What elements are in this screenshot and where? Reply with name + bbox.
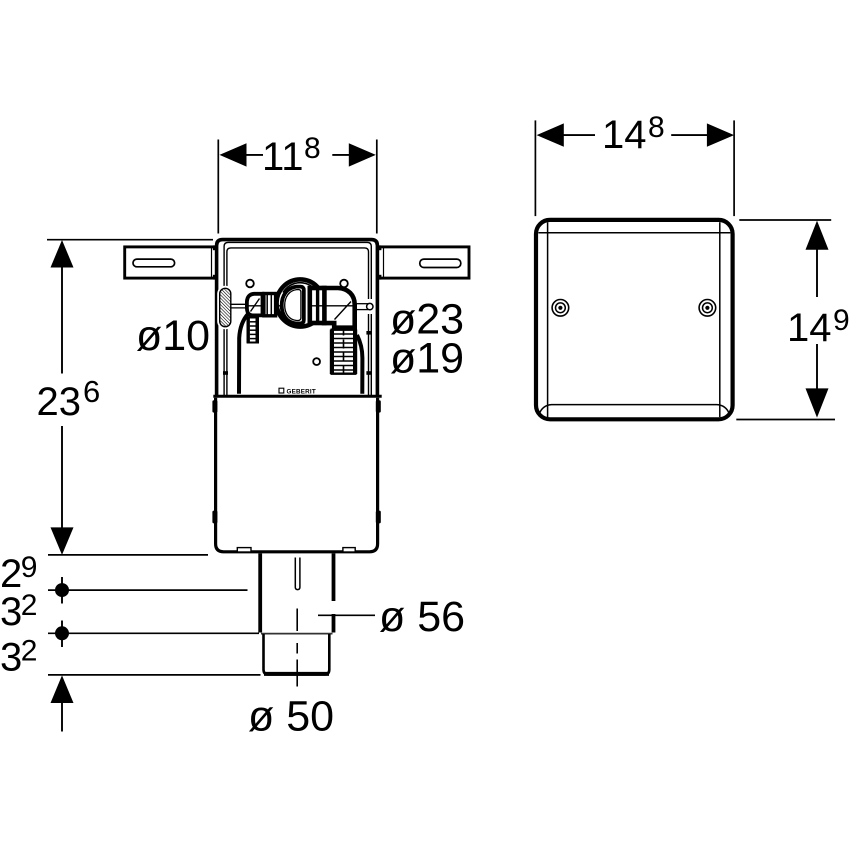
dimension 3_2 text b [0,634,37,679]
dimension 3_2 text a [0,589,37,634]
right channel lines [357,299,375,314]
dimension 2_9 text [0,551,37,596]
pipe top slot [295,558,300,590]
svg-text:ø10: ø10 [136,312,210,360]
lower box bottom notch left [237,548,251,552]
right corrugated hose [332,327,356,378]
right union block [310,288,325,323]
upper box inner wall line 2 [227,248,369,396]
label diameter 50 [248,692,334,740]
cover plate outer [536,220,733,419]
lower box bottom notch right [343,548,355,552]
left channel lines [231,304,249,308]
outlet pipe 56 right wall [332,553,336,632]
right thin hose [357,335,362,394]
box flange line [213,395,381,398]
svg-text:ø 56: ø 56 [379,593,465,641]
bracket slot right [420,259,461,267]
left elbow [247,294,263,316]
outlet pipe 56 left wall [258,553,262,632]
dimension dot 2_9 [55,577,69,604]
trap window [282,287,304,324]
cover plate inner frame [538,222,730,417]
dimension 14_8 arrows [537,123,735,146]
trap inlet center line [247,305,281,307]
wall bracket left [125,247,217,278]
right wall outlet circle [367,303,373,309]
dimension 11_8 arrow left [220,143,247,166]
back wall holes redraw [246,280,348,288]
dimension 11_8 extension line right [376,140,378,234]
dimension dot 3_2 [55,621,69,648]
dimension 14_9 arrows [806,221,829,418]
lower box tabs [212,400,380,523]
extension line level 2_9 [48,589,248,591]
svg-text:GEBERIT: GEBERIT [287,388,316,395]
stub 50 top line [261,633,333,635]
dimension 14_8 text [602,111,665,157]
box corner junction dots [213,245,382,279]
extension line level stub bottom [48,674,261,676]
pipe center line [296,609,298,687]
dimension 23_6 arrow down [51,527,74,555]
box wall tick marks [223,331,371,375]
upper box inner wall line 1 [224,242,371,396]
dimension 14_8 line segments [563,134,708,136]
dimension 23_6 text [37,374,101,424]
trap outlet center line [310,305,353,307]
trap body ring [277,279,324,326]
dimension 14_9 text [787,304,850,350]
upper box outer shell [217,240,378,397]
extension line level 3_2 [48,632,259,634]
back wall hole lower [313,358,320,365]
dimension arrow up bottom [51,675,74,731]
bracket slot left [133,259,175,267]
dimension 14_9 stem [816,249,818,390]
left ribbed seal [220,288,231,326]
left union nut [264,294,276,316]
left corrugated hose [248,317,258,343]
dimension 11_8 line segments [246,154,350,156]
label diameter 10 [136,312,210,360]
label diameter 56 with leader [318,593,465,641]
left seal halo [217,286,233,329]
lower box shell [216,398,378,552]
dimension 11_8 extension line left [217,140,219,234]
label diameter 19 [390,335,464,383]
right elbow [324,288,355,328]
stub 50 body [264,634,330,675]
dimension 23_6 stem [61,266,63,529]
dimension 11_8 text [262,132,321,179]
dimension 14_9 extension lines [736,220,835,420]
dimension 23_6 arrow up [51,240,74,268]
left thin hose [239,314,248,394]
dimension 11_8 arrow right [349,143,376,166]
svg-text:ø 50: ø 50 [248,692,334,740]
geberit logo [279,388,316,395]
wall bracket right [378,247,470,278]
plate screw right [699,300,716,317]
label diameter 23 [390,296,464,344]
svg-text:ø19: ø19 [390,335,464,383]
plate screw left [552,300,569,317]
extension line level box bottom [48,554,208,556]
dimension 14_8 extension lines [535,120,734,216]
dimension 23_6 top extension line [47,239,213,241]
